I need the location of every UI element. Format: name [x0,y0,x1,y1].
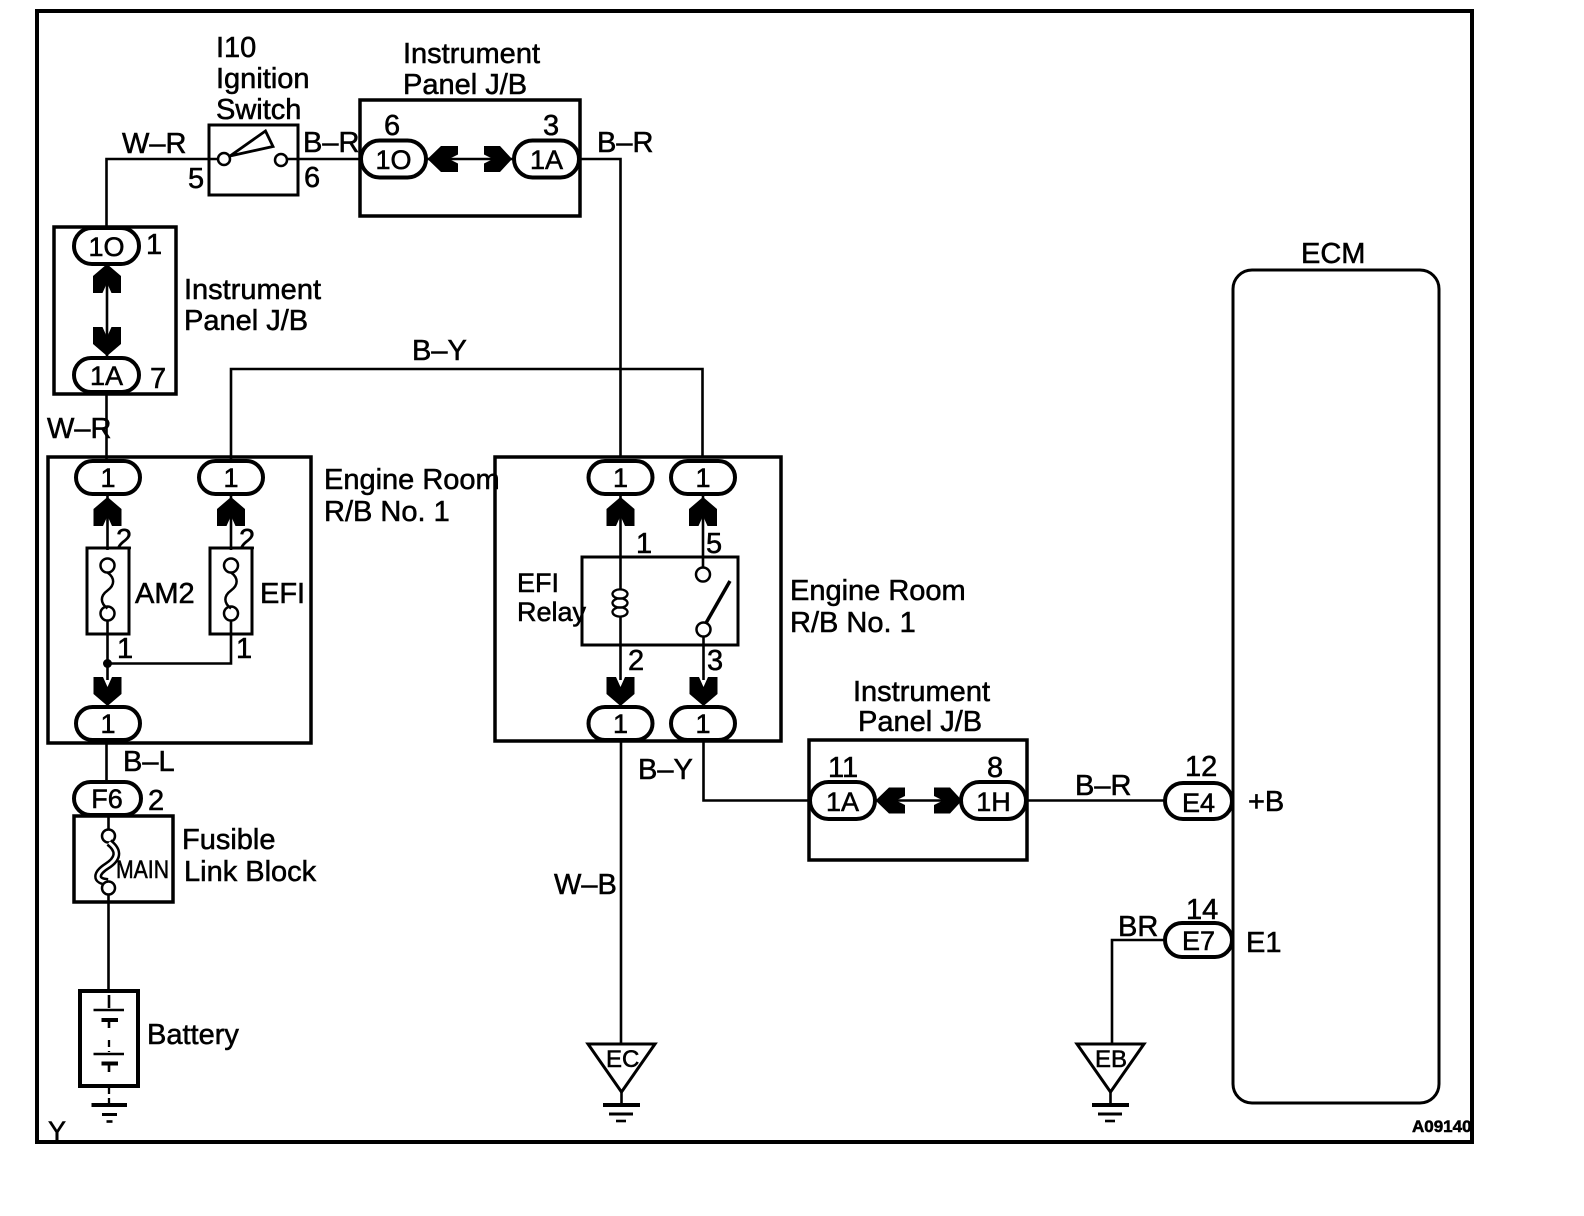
svg-text:ECM: ECM [1301,238,1365,270]
svg-text:Instrument: Instrument [184,274,321,306]
ECM box [1233,270,1439,1103]
ignition switch lever [230,131,273,156]
ground (battery) [92,1103,128,1107]
wire BR from E7 to EB ground [1112,940,1165,1044]
connector 1 (left ER bottom) [76,707,140,740]
fuse AM2 bottom circle [101,607,115,621]
svg-text:MAIN: MAIN [116,856,169,884]
svg-text:1: 1 [613,463,628,493]
svg-text:EB: EB [1095,1046,1127,1073]
connector 1 (relay coil bottom) [589,707,653,740]
ground EC triangle [588,1044,655,1092]
svg-text:A09140: A09140 [1412,1117,1472,1136]
fuse AM2 box [87,548,129,634]
Instrument Panel J/B (lower) box [809,740,1027,860]
svg-text:1: 1 [236,633,252,665]
svg-text:Ignition: Ignition [216,63,310,95]
svg-text:6: 6 [384,110,400,142]
svg-text:Link Block: Link Block [184,856,317,888]
chevron up (AM2) [94,497,122,526]
svg-text:Switch: Switch [216,94,301,126]
svg-text:I10: I10 [216,32,256,64]
chevron down (left ER box) [94,677,122,706]
wire battery to ground [108,1086,110,1103]
svg-text:W–R: W–R [47,413,111,445]
fuse AM2 top circle [101,559,115,573]
svg-text:E1: E1 [1246,927,1281,959]
fusible link block box [74,816,173,902]
svg-text:8: 8 [987,752,1003,784]
connector E7 [1165,923,1232,957]
svg-text:B–Y: B–Y [412,335,467,367]
svg-text:W–B: W–B [554,869,617,901]
svg-text:1A: 1A [826,787,859,817]
connector 1H (lower J/B) [961,782,1026,819]
Engine Room R/B No.1 (right) box [495,457,781,741]
Engine Room R/B No.1 (left) box [48,457,311,743]
connector 1O (top J/B) [361,141,426,178]
chevron up (EFI) [217,497,245,526]
connector E4 [1165,783,1232,819]
svg-text:AM2: AM2 [135,578,195,610]
chevron right (top J/B) [484,146,512,172]
fuse EFI element [225,573,236,609]
svg-text:Instrument: Instrument [403,38,540,70]
svg-text:F6: F6 [91,784,123,814]
relay switch blade [706,581,730,623]
wire W-B down to EC ground [620,740,623,1044]
svg-text:1O: 1O [88,232,124,262]
svg-text:11: 11 [828,752,858,784]
svg-text:12: 12 [1185,751,1217,783]
connector 1 (relay sw bottom) [671,707,735,740]
wire B-R from 1H to E4 [1026,799,1166,802]
fuse EFI bottom circle [224,607,238,621]
Instrument Panel J/B (left) box [54,227,176,394]
svg-text:Y: Y [48,1116,66,1146]
fusible link top circle [102,830,115,843]
svg-text:Panel J/B: Panel J/B [403,69,527,101]
svg-text:W–R: W–R [122,128,186,160]
svg-text:1H: 1H [976,787,1011,817]
svg-text:1: 1 [695,463,710,493]
connector 1A (top J/B) [514,141,579,178]
chevron up (left J/B) [93,264,121,293]
wire from ER box to F6 [105,740,108,784]
svg-text:Panel J/B: Panel J/B [184,305,308,337]
chevron down (sw) [690,677,718,706]
wire EFI to junction [108,620,232,664]
chevron left (top J/B) [428,146,459,172]
svg-text:1A: 1A [530,145,563,175]
svg-text:5: 5 [188,163,204,195]
EFI relay box [582,557,738,645]
ignition switch contact right [275,154,287,166]
ground EB bars [1109,1092,1112,1103]
relay switch top contact [696,568,710,582]
connector 1 (relay coil top) [589,461,653,494]
svg-text:1: 1 [100,463,115,493]
svg-text:1A: 1A [90,361,123,391]
wire B-Y from relay sw to lower J/B [704,740,811,801]
svg-text:5: 5 [706,528,722,560]
chevron up (sw) [689,497,717,526]
svg-text:1: 1 [146,229,162,261]
svg-text:1O: 1O [375,145,411,175]
svg-text:BR: BR [1118,911,1158,943]
connector line between (lower J/B) [875,799,964,802]
svg-text:3: 3 [707,645,723,677]
svg-text:2: 2 [628,645,644,677]
wire B-R switch to J/B [287,158,362,161]
ground EC bars [620,1092,623,1103]
svg-text:EFI: EFI [517,568,559,598]
svg-text:Panel J/B: Panel J/B [858,706,982,738]
svg-text:1: 1 [223,463,238,493]
svg-text:B–Y: B–Y [638,754,693,786]
wire B-R from 1A to right engine room box [579,159,621,458]
svg-text:Relay: Relay [517,597,587,627]
wire EFI branch [230,494,233,550]
ignition switch contact left [218,153,230,165]
svg-text:Instrument: Instrument [853,676,990,708]
svg-text:Battery: Battery [147,1019,239,1051]
wire coil bottom [619,645,622,680]
connector 1 (relay sw top) [671,461,735,494]
svg-text:B–R: B–R [1075,770,1131,802]
connector F6 [74,782,141,815]
junction dot [103,659,112,668]
chevron right (lower J/B) [934,788,962,814]
internal wire (left J/B) [106,264,109,358]
battery internal plates [94,1009,125,1012]
svg-text:E7: E7 [1182,926,1215,956]
svg-text:1: 1 [117,633,133,665]
connector 1A (lower J/B) [810,782,875,819]
fuse EFI top circle [224,559,238,573]
ignition switch I10 box [209,125,298,195]
chevron down (left J/B) [93,327,121,356]
connector 1O (left J/B) [74,228,139,264]
relay coil [619,557,622,590]
svg-text:Engine Room: Engine Room [790,575,966,607]
wire B-Y from EFI fuse to relay branch [231,369,703,462]
fuse AM2 element [102,573,113,609]
svg-text:B–R: B–R [303,127,359,159]
svg-text:1: 1 [636,528,652,560]
ground EB triangle [1077,1044,1144,1092]
svg-text:R/B No. 1: R/B No. 1 [790,607,916,639]
svg-text:B–L: B–L [123,746,175,778]
svg-text:1: 1 [613,709,628,739]
svg-text:1: 1 [695,709,710,739]
chevron down (coil) [607,677,635,706]
wire sw bottom [702,637,705,681]
connector 1 (AM2 top) [76,461,140,494]
wire W-R from left J/B up to ignition switch [107,159,219,228]
wire sw branch top [702,494,705,568]
svg-text:7: 7 [150,363,166,395]
chevron up (coil) [607,497,635,526]
svg-text:EFI: EFI [260,578,305,610]
chevron left (lower J/B) [876,788,906,814]
svg-text:3: 3 [543,110,559,142]
relay switch bottom contact [697,623,711,637]
wire W-R from left J/B down to engine room box [105,392,108,462]
svg-text:EC: EC [606,1046,639,1073]
connector 1A (left J/B) [74,358,139,392]
svg-text:Engine Room: Engine Room [324,464,500,496]
fusible link MAIN element [98,843,116,883]
svg-text:B–R: B–R [597,127,653,159]
connector line between [426,158,515,161]
connector 1 (EFI top) [199,461,263,494]
Instrument Panel J/B (top) box [360,100,580,216]
fusible link bottom circle [102,882,115,895]
svg-text:14: 14 [1186,894,1218,926]
wire coil branch top [619,494,622,557]
svg-text:1: 1 [100,709,115,739]
svg-text:Fusible: Fusible [182,824,276,856]
fuse EFI box [210,548,252,634]
wire AM2 to junction [106,620,109,680]
battery box [80,991,138,1086]
wire block to battery [107,902,110,991]
svg-text:R/B No. 1: R/B No. 1 [324,496,450,528]
svg-text:2: 2 [148,785,164,817]
svg-text:E4: E4 [1182,788,1215,818]
svg-text:6: 6 [304,162,320,194]
wire AM2 branch [106,494,109,550]
svg-text:+B: +B [1248,786,1284,818]
